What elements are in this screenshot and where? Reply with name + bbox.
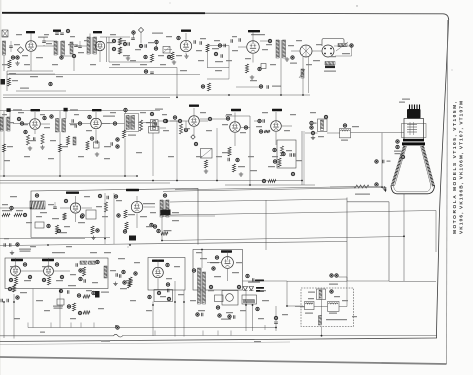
node (17, 117, 20, 120)
sel rect diodes (243, 287, 248, 291)
wire v2 (99, 51, 101, 62)
brightness pot (330, 186, 354, 188)
resistor chain (2, 213, 10, 216)
label contrast b1 (11, 259, 23, 261)
label +135v (68, 285, 76, 286)
bus row3 (0, 242, 347, 246)
2nd IF amp V6 6AU6 (91, 118, 102, 129)
cap (53, 206, 57, 208)
right inner border (437, 20, 449, 338)
node (256, 307, 259, 310)
wire osc (44, 40, 54, 42)
wire sync to crt 2 (170, 199, 347, 202)
resistor under T4 (2, 144, 5, 152)
wire loop to filter choke (322, 39, 344, 47)
node (166, 263, 169, 266)
field coil choke (301, 69, 304, 78)
ground (286, 57, 288, 59)
flyback transformer T8 (198, 268, 201, 304)
flyback lower parts (209, 285, 212, 288)
wire boxB (32, 289, 34, 328)
node res (123, 281, 126, 284)
page num 22c (254, 341, 261, 342)
CRT dark band 1 (403, 139, 424, 142)
cap vert (274, 316, 277, 319)
wire (0, 207, 30, 209)
CRT neck outer box (402, 124, 427, 138)
vert out tube V13 (131, 201, 142, 212)
nodes (64, 199, 67, 202)
cap+node (139, 44, 142, 47)
audio tube V3 6AV6 (180, 40, 191, 51)
wire if link3 (102, 123, 125, 125)
wire vid out (200, 118, 229, 120)
wire spk (312, 50, 322, 52)
wire if link1 (13, 123, 29, 125)
grid parts (24, 130, 27, 133)
marker 21.9MC (7, 108, 11, 112)
osc trimmers (55, 32, 59, 34)
diamond det (138, 27, 143, 32)
caps (115, 273, 117, 277)
node+gnd (311, 131, 314, 134)
node (177, 36, 180, 39)
ground (127, 56, 129, 58)
label contrast b2 (42, 259, 54, 261)
marker 21.7MC (64, 108, 68, 112)
peaking coil L15 (30, 201, 45, 209)
HV cage box D (193, 250, 243, 291)
resistor (124, 210, 127, 218)
coupling caps (230, 39, 232, 43)
yoke series coil (319, 316, 322, 326)
vertical wires IF (3, 131, 5, 176)
screen parts (41, 134, 44, 144)
trap label (103, 116, 115, 117)
wire row2 drops (152, 133, 154, 176)
resistor (179, 124, 182, 134)
nodes (226, 117, 229, 120)
caps (71, 119, 73, 123)
IF transformer T4 (0, 117, 3, 131)
label 6AU6 snd (93, 31, 102, 33)
resistor (206, 44, 209, 52)
wire v1 grid (30, 34, 32, 41)
grid res (228, 147, 231, 156)
resistor R3 (118, 38, 121, 45)
horiz centering (16, 243, 19, 246)
node (88, 115, 91, 118)
b+ boost label (248, 282, 260, 283)
small trimmer caps (42, 40, 46, 42)
audio out tube V4 6V6GT (247, 41, 260, 54)
CRT screen face (391, 186, 435, 194)
resistor (204, 160, 207, 168)
cathode resistor (245, 64, 248, 73)
stub wires to bus (27, 323, 29, 328)
wire (176, 68, 178, 98)
label 6SN7GT horiz (152, 260, 164, 262)
divider2 (78, 311, 81, 314)
wire (435, 211, 437, 253)
nodes (112, 39, 115, 42)
capacitor C1 (9, 45, 13, 47)
wires down mid (152, 302, 154, 337)
video 4.5mc block (155, 109, 163, 110)
node (35, 194, 38, 197)
below tube parts (90, 137, 93, 140)
grid parts (98, 194, 101, 197)
node (49, 82, 52, 85)
CRT dark band 2 (402, 142, 425, 145)
vert lin pot (150, 223, 153, 226)
sound IF input cap (78, 45, 82, 47)
wire (249, 116, 251, 185)
nodes (164, 119, 167, 122)
labels above CRT pins (402, 99, 410, 100)
node (144, 70, 147, 73)
label sel rect (256, 287, 264, 289)
converter transformer T1 (54, 41, 57, 55)
row2 bottom buses (0, 175, 137, 177)
resistor R4 (118, 47, 121, 54)
node (50, 115, 53, 118)
wire (265, 200, 267, 250)
gnd (115, 282, 117, 284)
label 1B3GT (221, 250, 232, 252)
power: left caps (8, 287, 11, 290)
extra labels rows 1-2 (2, 36, 7, 37)
nodes (218, 44, 221, 47)
wire b+boost (243, 280, 288, 282)
box (86, 210, 96, 219)
width coil (343, 124, 346, 127)
HV rect tube V15 (222, 257, 234, 269)
wire IF2 (95, 112, 97, 118)
cath resistor (66, 136, 69, 145)
label deflection yoke (326, 319, 347, 320)
resistor (171, 52, 174, 60)
CRT base cap (407, 109, 421, 119)
bus y327 (28, 327, 276, 329)
vert integrator coils (80, 261, 87, 264)
node (194, 142, 197, 145)
mixer grid diamond (17, 47, 23, 53)
wire focus (305, 132, 318, 134)
wire contrast (75, 196, 77, 202)
label (128, 135, 136, 136)
caps (193, 40, 195, 44)
row1 bottom bus (3, 94, 310, 96)
top border line thick part (2, 12, 205, 14)
cathode cluster (214, 52, 217, 55)
resistor R1 (8, 60, 11, 68)
vert wire crt bottom (403, 194, 405, 281)
yoke horiz coil (305, 302, 315, 310)
wire vid link (158, 120, 188, 122)
CRT second anode dot (401, 155, 404, 158)
bottom schematic border (0, 338, 437, 342)
wire if link4 (139, 122, 151, 124)
yoke vert coil (328, 302, 340, 312)
node (291, 56, 294, 59)
sync tube V8 12AU7 (230, 122, 241, 133)
junction dots (3, 175, 5, 177)
horiz osc tube V14 (153, 267, 164, 278)
wire sync2 (275, 112, 277, 120)
nodes (258, 119, 261, 122)
contrast box A (31, 189, 198, 245)
diag box (201, 149, 213, 159)
label +300v (101, 341, 110, 342)
wire (109, 61, 152, 63)
node (163, 194, 166, 197)
wire (280, 58, 282, 95)
cap (74, 44, 78, 46)
sound IF amp tube V2 (95, 41, 105, 51)
parts (35, 222, 44, 228)
focus coil L7 (324, 115, 327, 118)
wire (106, 37, 108, 62)
wire (302, 57, 304, 95)
box vol (163, 47, 170, 54)
right outer page edge (447, 20, 448, 364)
osc tube label 6J6 (53, 30, 61, 32)
sound IF transformer T2 (87, 37, 90, 54)
nodes right (310, 121, 313, 124)
node (291, 172, 294, 175)
output transformer T3 (276, 40, 279, 58)
CRT gun grid (407, 124, 417, 126)
yoke plug dots (330, 274, 333, 277)
wire flyback top (201, 250, 203, 269)
CRT labels 10BP4 (396, 140, 399, 143)
node (258, 67, 261, 70)
ground (384, 186, 386, 188)
CRT funnel right edge (423, 146, 434, 186)
dark block (129, 236, 136, 241)
box (277, 140, 296, 168)
wire (208, 45, 230, 47)
wire bus (7, 74, 200, 76)
bus y335 (0, 335, 114, 337)
focus control (59, 289, 62, 292)
node (259, 85, 262, 88)
sync tube V9 12AU7 (271, 121, 282, 132)
grid leak (273, 160, 276, 163)
label contrast (66, 192, 79, 194)
label 6V6GT audio output (248, 30, 260, 32)
wire rect vert (161, 216, 163, 241)
filter choke L4 (338, 44, 347, 47)
bus +105V (16, 90, 66, 92)
wire (339, 276, 348, 278)
AGC box (1, 79, 6, 85)
sel rect block (242, 295, 257, 304)
wire det (160, 127, 166, 129)
CRT funnel left edge (392, 146, 405, 186)
470k box (154, 290, 173, 302)
divider (77, 294, 80, 297)
vert hold label (52, 252, 65, 253)
CRT neck (404, 119, 424, 141)
wire hv (227, 250, 229, 256)
node (192, 269, 195, 272)
CRT base pins (409, 105, 411, 110)
wire v3 (185, 33, 187, 40)
node (350, 44, 353, 47)
node (201, 85, 204, 88)
yoke width coil (317, 289, 326, 300)
ground (17, 61, 19, 63)
node (134, 272, 137, 275)
wire sync1 (234, 113, 236, 122)
1st IF amp V5 6AU6 (30, 119, 41, 130)
volume control (152, 33, 163, 34)
ground (251, 75, 253, 77)
bottom page edge line (0, 357, 447, 364)
resistor (91, 226, 94, 234)
pot v1 (14, 277, 17, 285)
arrow gnd (383, 186, 386, 188)
vert osc tube V12 (44, 266, 54, 276)
caps bottom (228, 315, 231, 318)
wire sync to crt 4 (162, 237, 404, 241)
vert osc tube V11 (11, 266, 21, 276)
node (268, 39, 271, 42)
wire vert out (136, 196, 138, 201)
IF strip top bus (0, 110, 160, 112)
ground (186, 54, 188, 56)
speaker socket (322, 45, 334, 57)
antenna terminal block (2, 30, 8, 37)
6SN7GT vert amp label (126, 189, 139, 191)
node (60, 56, 63, 59)
wire IF1 (34, 112, 36, 118)
resistor (139, 120, 142, 131)
wire IF3 (125, 111, 127, 114)
wire v4 (252, 33, 254, 41)
wires down (3, 303, 5, 338)
wire (3, 55, 5, 71)
wire sync to crt 3 (170, 211, 436, 216)
wire yoke mid (321, 327, 323, 336)
vert wire (381, 133, 383, 187)
control box B (5, 258, 108, 289)
boxB right parts (75, 263, 77, 267)
node (150, 112, 153, 115)
pot v2 (47, 277, 50, 285)
resistor under T5 (58, 144, 61, 152)
IF transformer T5 (56, 119, 59, 133)
horiz lin (196, 313, 199, 316)
wire horiz osc (157, 260, 159, 267)
vert output transformer T7 (160, 200, 163, 217)
label hv (210, 262, 219, 263)
pot (262, 179, 265, 182)
label b+ (40, 332, 45, 333)
integrator vert coil (104, 266, 107, 278)
wire (7, 70, 53, 72)
horiz osc box C (148, 258, 185, 291)
5U4G box (222, 291, 238, 306)
plate res (273, 148, 276, 151)
wire sync to crt 1 (163, 188, 383, 192)
wire if link2 (69, 123, 90, 125)
speaker field coil (325, 62, 335, 65)
label fine tuning (38, 37, 48, 38)
wire vert osc (15, 258, 17, 266)
node (155, 40, 158, 43)
extra labels rows 3-4 (2, 204, 8, 205)
yoke wires (295, 306, 305, 308)
resistor R2 (7, 78, 10, 86)
deflection yoke dashed box (301, 288, 354, 327)
fuse squiggle (114, 334, 124, 337)
node dots (11, 56, 14, 59)
nodes boxB (23, 263, 26, 266)
osc coil (70, 42, 73, 54)
wire (37, 45, 54, 47)
label spkr field (324, 71, 336, 72)
3rd IF transformer T6 (125, 114, 139, 132)
RF amp tube V1 6AG5 (26, 41, 37, 52)
wires down right (245, 291, 247, 331)
electrolytic 100mfd (95, 291, 100, 298)
video det box (149, 127, 160, 134)
speaker voice coil plug (300, 45, 312, 57)
antenna coil L1 (3, 41, 6, 55)
cap C5 (127, 42, 129, 46)
box A bottom edge (31, 237, 110, 239)
wire (351, 132, 405, 134)
label 6AG5 (26, 31, 35, 33)
svg-text:MOTOROLA MODELS VT105, VT105M,: MOTOROLA MODELS VT105, VT105M, (452, 101, 458, 234)
node (237, 285, 240, 288)
svg-text:VK106, VK106B, VK106M, VT107,: VK106, VK106B, VK106M, VT107, VT107M (459, 101, 465, 234)
wire crt (382, 132, 404, 134)
sync sep tube V10 (70, 203, 80, 213)
empty box below crt (346, 198, 348, 282)
wire sync to crt 2b (175, 186, 381, 190)
node+cap (375, 160, 378, 163)
zigzag (122, 130, 125, 138)
video amp tube V7 (189, 116, 200, 127)
wire (207, 78, 229, 80)
node (132, 31, 135, 34)
damper parts right (246, 274, 249, 277)
node (144, 55, 147, 58)
top border line thin part (205, 13, 449, 20)
dust specks (356, 5, 357, 6)
node (123, 42, 126, 45)
bus (0, 238, 85, 240)
